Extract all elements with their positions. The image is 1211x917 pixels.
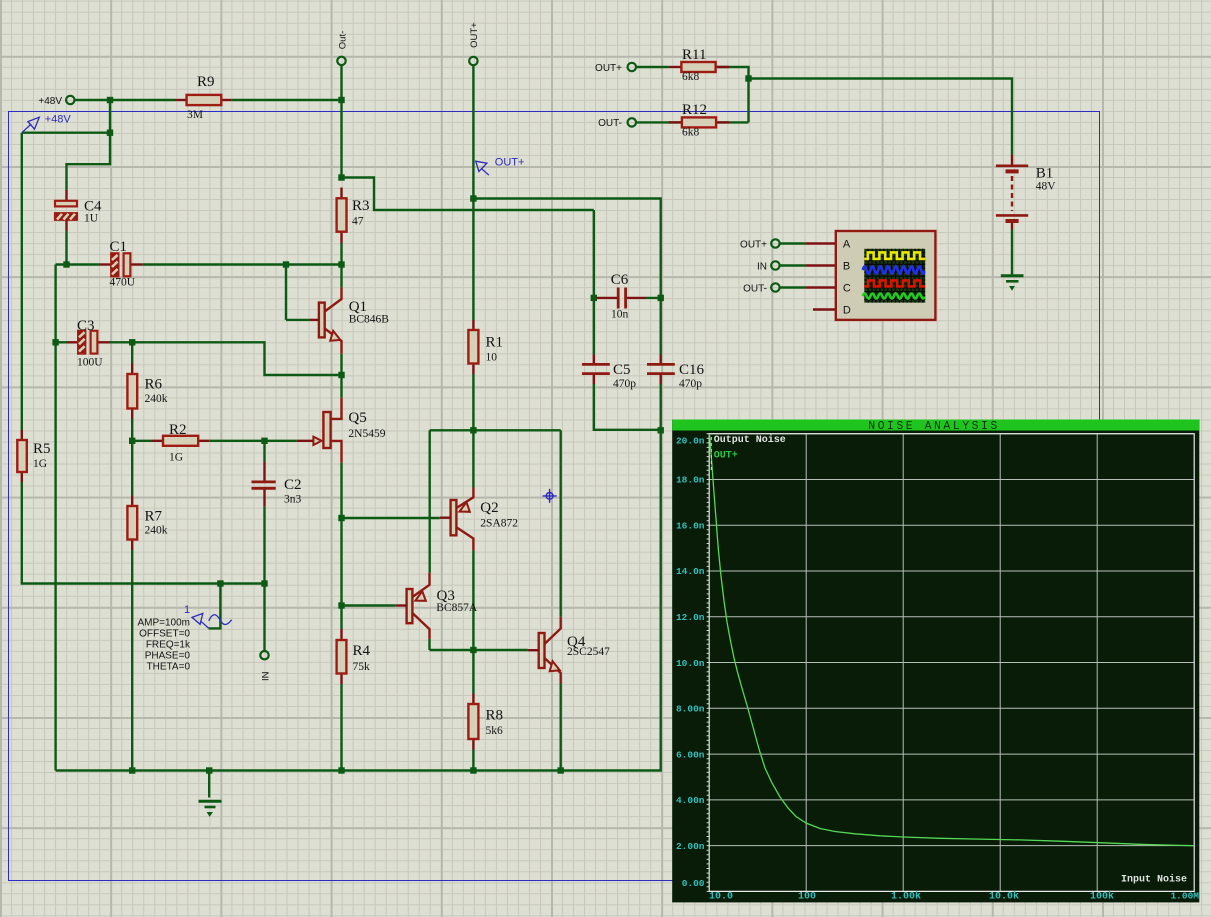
- svg-text:NOISE ANALYSIS: NOISE ANALYSIS: [868, 420, 1000, 433]
- svg-text:6k8: 6k8: [682, 127, 700, 139]
- svg-text:R5: R5: [33, 441, 51, 457]
- svg-text:IN: IN: [757, 262, 767, 273]
- svg-text:B: B: [843, 261, 850, 273]
- svg-text:100k: 100k: [1090, 891, 1114, 903]
- svg-text:+48V: +48V: [45, 114, 72, 126]
- svg-text:Out-: Out-: [337, 31, 348, 49]
- svg-text:PHASE=0: PHASE=0: [145, 651, 191, 662]
- svg-text:C6: C6: [611, 272, 629, 288]
- svg-text:1U: 1U: [84, 213, 99, 225]
- svg-text:R12: R12: [682, 102, 707, 118]
- svg-text:240k: 240k: [145, 525, 168, 537]
- svg-text:47: 47: [352, 216, 364, 228]
- svg-text:C2: C2: [284, 477, 302, 493]
- svg-text:R1: R1: [486, 335, 504, 351]
- svg-text:10.0: 10.0: [709, 892, 733, 903]
- svg-text:1.00M: 1.00M: [1170, 891, 1199, 902]
- svg-text:A: A: [843, 239, 851, 251]
- svg-text:C1: C1: [110, 239, 128, 255]
- svg-text:1.00k: 1.00k: [891, 891, 921, 903]
- svg-text:FREQ=1k: FREQ=1k: [146, 640, 191, 651]
- svg-text:470p: 470p: [613, 378, 636, 390]
- svg-text:470U: 470U: [110, 277, 136, 289]
- svg-text:BC846B: BC846B: [349, 314, 390, 326]
- svg-text:B1: B1: [1036, 166, 1054, 182]
- svg-text:OUT+: OUT+: [714, 451, 738, 462]
- svg-text:OUT+: OUT+: [740, 240, 767, 251]
- svg-text:2SA872: 2SA872: [480, 518, 518, 530]
- svg-text:D: D: [843, 305, 851, 317]
- svg-text:R2: R2: [169, 422, 187, 438]
- svg-text:470p: 470p: [679, 378, 702, 390]
- svg-text:R4: R4: [353, 643, 371, 659]
- svg-text:1: 1: [184, 604, 190, 616]
- svg-text:12.0n: 12.0n: [676, 612, 705, 623]
- svg-text:OUT+: OUT+: [469, 22, 480, 48]
- svg-text:10n: 10n: [611, 309, 629, 321]
- svg-text:6k8: 6k8: [682, 71, 700, 83]
- svg-text:C5: C5: [613, 362, 631, 378]
- svg-text:C: C: [843, 283, 851, 295]
- svg-text:IN: IN: [260, 671, 271, 681]
- svg-text:75k: 75k: [353, 661, 371, 673]
- svg-text:C16: C16: [679, 362, 705, 378]
- svg-text:R6: R6: [145, 377, 163, 393]
- svg-text:Output Noise: Output Noise: [714, 434, 786, 446]
- svg-text:Q5: Q5: [348, 410, 366, 426]
- svg-text:Input Noise: Input Noise: [1121, 874, 1187, 886]
- svg-text:8.00n: 8.00n: [676, 704, 705, 715]
- svg-text:2.00n: 2.00n: [676, 841, 705, 852]
- svg-text:6.00n: 6.00n: [676, 749, 705, 760]
- svg-text:20.0n: 20.0n: [676, 435, 705, 446]
- svg-text:OUT+: OUT+: [595, 63, 622, 74]
- svg-text:Q2: Q2: [480, 500, 498, 516]
- svg-text:48V: 48V: [1036, 181, 1057, 193]
- svg-text:240k: 240k: [145, 393, 168, 405]
- svg-text:16.0n: 16.0n: [676, 520, 705, 531]
- svg-text:R9: R9: [197, 74, 215, 90]
- svg-text:100U: 100U: [77, 357, 103, 369]
- svg-text:10.0k: 10.0k: [989, 891, 1019, 903]
- svg-text:BC857A: BC857A: [436, 602, 478, 614]
- svg-text:18.0n: 18.0n: [676, 475, 705, 486]
- svg-text:10: 10: [486, 352, 498, 364]
- svg-text:OUT-: OUT-: [598, 118, 622, 129]
- svg-text:R11: R11: [682, 47, 706, 63]
- svg-text:1G: 1G: [169, 452, 183, 464]
- svg-text:+48V: +48V: [38, 96, 62, 107]
- svg-text:1G: 1G: [33, 458, 47, 470]
- svg-text:THETA=0: THETA=0: [147, 662, 191, 673]
- svg-text:AMP=100m: AMP=100m: [137, 618, 190, 629]
- svg-text:2SC2547: 2SC2547: [567, 646, 610, 658]
- svg-text:14.0n: 14.0n: [676, 566, 705, 577]
- svg-text:R7: R7: [145, 509, 163, 525]
- svg-text:OFFSET=0: OFFSET=0: [139, 629, 190, 640]
- svg-text:R3: R3: [352, 198, 370, 214]
- svg-text:5k6: 5k6: [486, 725, 504, 737]
- svg-text:OUT+: OUT+: [495, 157, 525, 169]
- svg-text:3n3: 3n3: [284, 494, 302, 506]
- svg-text:C3: C3: [77, 318, 95, 334]
- svg-text:4.00n: 4.00n: [676, 795, 705, 806]
- svg-text:10.0n: 10.0n: [676, 658, 705, 669]
- svg-text:OUT-: OUT-: [743, 284, 767, 295]
- svg-text:R8: R8: [486, 708, 504, 724]
- svg-text:100: 100: [798, 892, 816, 903]
- svg-text:0.00: 0.00: [682, 878, 705, 889]
- svg-text:3M: 3M: [187, 109, 203, 121]
- svg-text:2N5459: 2N5459: [348, 428, 385, 440]
